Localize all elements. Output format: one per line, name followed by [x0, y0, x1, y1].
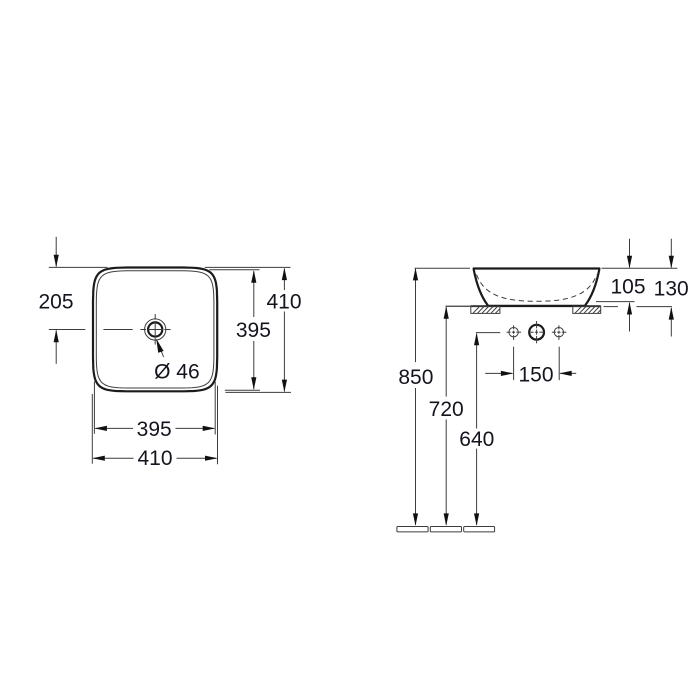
drain hole: outer thin circle [145, 319, 166, 340]
svg-text:150: 150 [518, 363, 553, 386]
svg-text:410: 410 [137, 447, 172, 470]
dimension 410 horizontal: dim line + arrows [92, 456, 217, 461]
right side: outer bottom extension line [225, 391, 291, 393]
svg-text:105: 105 [610, 275, 645, 298]
counter line left segment [446, 305, 472, 307]
dimension 850: dim line + arrows [413, 268, 418, 526]
svg-text:205: 205 [38, 290, 73, 313]
dimension 105: bottom line + up arrow [627, 302, 632, 332]
dimension 205: top extension line [49, 266, 108, 268]
bottom: left inner extension line [93, 382, 95, 434]
washbasin top view: inner rim outline [96, 271, 214, 388]
dimension 150: extension lines [514, 347, 560, 380]
faucet hole left: circle + crosshair [507, 325, 521, 340]
dimension 105: top line + down arrow [627, 239, 632, 269]
faucet hole right: circle + crosshair [552, 325, 567, 340]
bottom: right inner extension line [214, 382, 216, 435]
counter hatch bar left [471, 306, 500, 313]
right side: inner top extension line [209, 269, 259, 271]
dimension 720: top extension line [446, 305, 472, 307]
horizontal centerline long dash [103, 329, 132, 331]
dimension 130: bottom line + up arrow [669, 307, 674, 336]
faucet holes centerline extension [476, 332, 500, 334]
svg-text:410: 410 [266, 291, 301, 314]
front view: basin right profile [585, 269, 599, 305]
right side: inner bottom extension line [225, 389, 260, 391]
rim extension line left (to 850) [415, 267, 471, 269]
dimension 205: lower dim line + up arrow [54, 330, 59, 364]
front view: basin bottom line [487, 305, 586, 307]
floor bar 3 [464, 527, 495, 532]
rim extension line right (to 105/130) [602, 267, 678, 269]
counter top line across [471, 305, 601, 307]
inner bowl depth extension line (105) [596, 301, 635, 303]
dimension 395 horizontal: dim line + arrows [94, 426, 215, 431]
front view: basin left profile [474, 269, 488, 305]
svg-text:640: 640 [459, 428, 494, 451]
svg-text:Ø 46: Ø 46 [154, 360, 200, 383]
front view: basin rim top line [474, 267, 600, 269]
faucet hole center: thick circle + crosshair [529, 321, 544, 343]
drain hole: inner thick circle [148, 322, 162, 336]
drain centerline horizontal dashes [140, 329, 170, 331]
bottom: left outer extension line [91, 394, 93, 464]
drain centerline vertical dashes [154, 314, 156, 345]
dimension 205: upper dim line + down arrow [54, 237, 59, 267]
dimension 640: dim line + arrows [474, 333, 479, 526]
front view: inner bowl dashed curve [477, 275, 598, 302]
washbasin top view: outer rim outline [93, 268, 217, 392]
dimension 395 vertical: dim line + arrows [251, 270, 256, 390]
svg-text:720: 720 [429, 398, 464, 421]
dimension 205: mid extension line [49, 329, 86, 331]
floor bar 2 [430, 527, 461, 532]
leader line for drain diameter [156, 339, 163, 358]
dimension 130: top line + down arrow [669, 239, 674, 269]
svg-text:395: 395 [236, 319, 271, 342]
dimension 410 vertical: dim line + arrows [282, 268, 287, 393]
bottom: right outer extension line [217, 386, 219, 465]
right side: outer top extension line [205, 266, 291, 268]
svg-text:850: 850 [398, 366, 433, 389]
counter-top extension lines (130) [604, 306, 673, 308]
svg-text:395: 395 [137, 418, 172, 441]
floor bar 1 [397, 527, 428, 532]
counter hatch bar right [573, 306, 601, 313]
dimension 720: dim line + arrows [444, 306, 449, 526]
dimension 150: dim line + inward arrows [485, 371, 576, 376]
svg-text:130: 130 [654, 277, 689, 300]
